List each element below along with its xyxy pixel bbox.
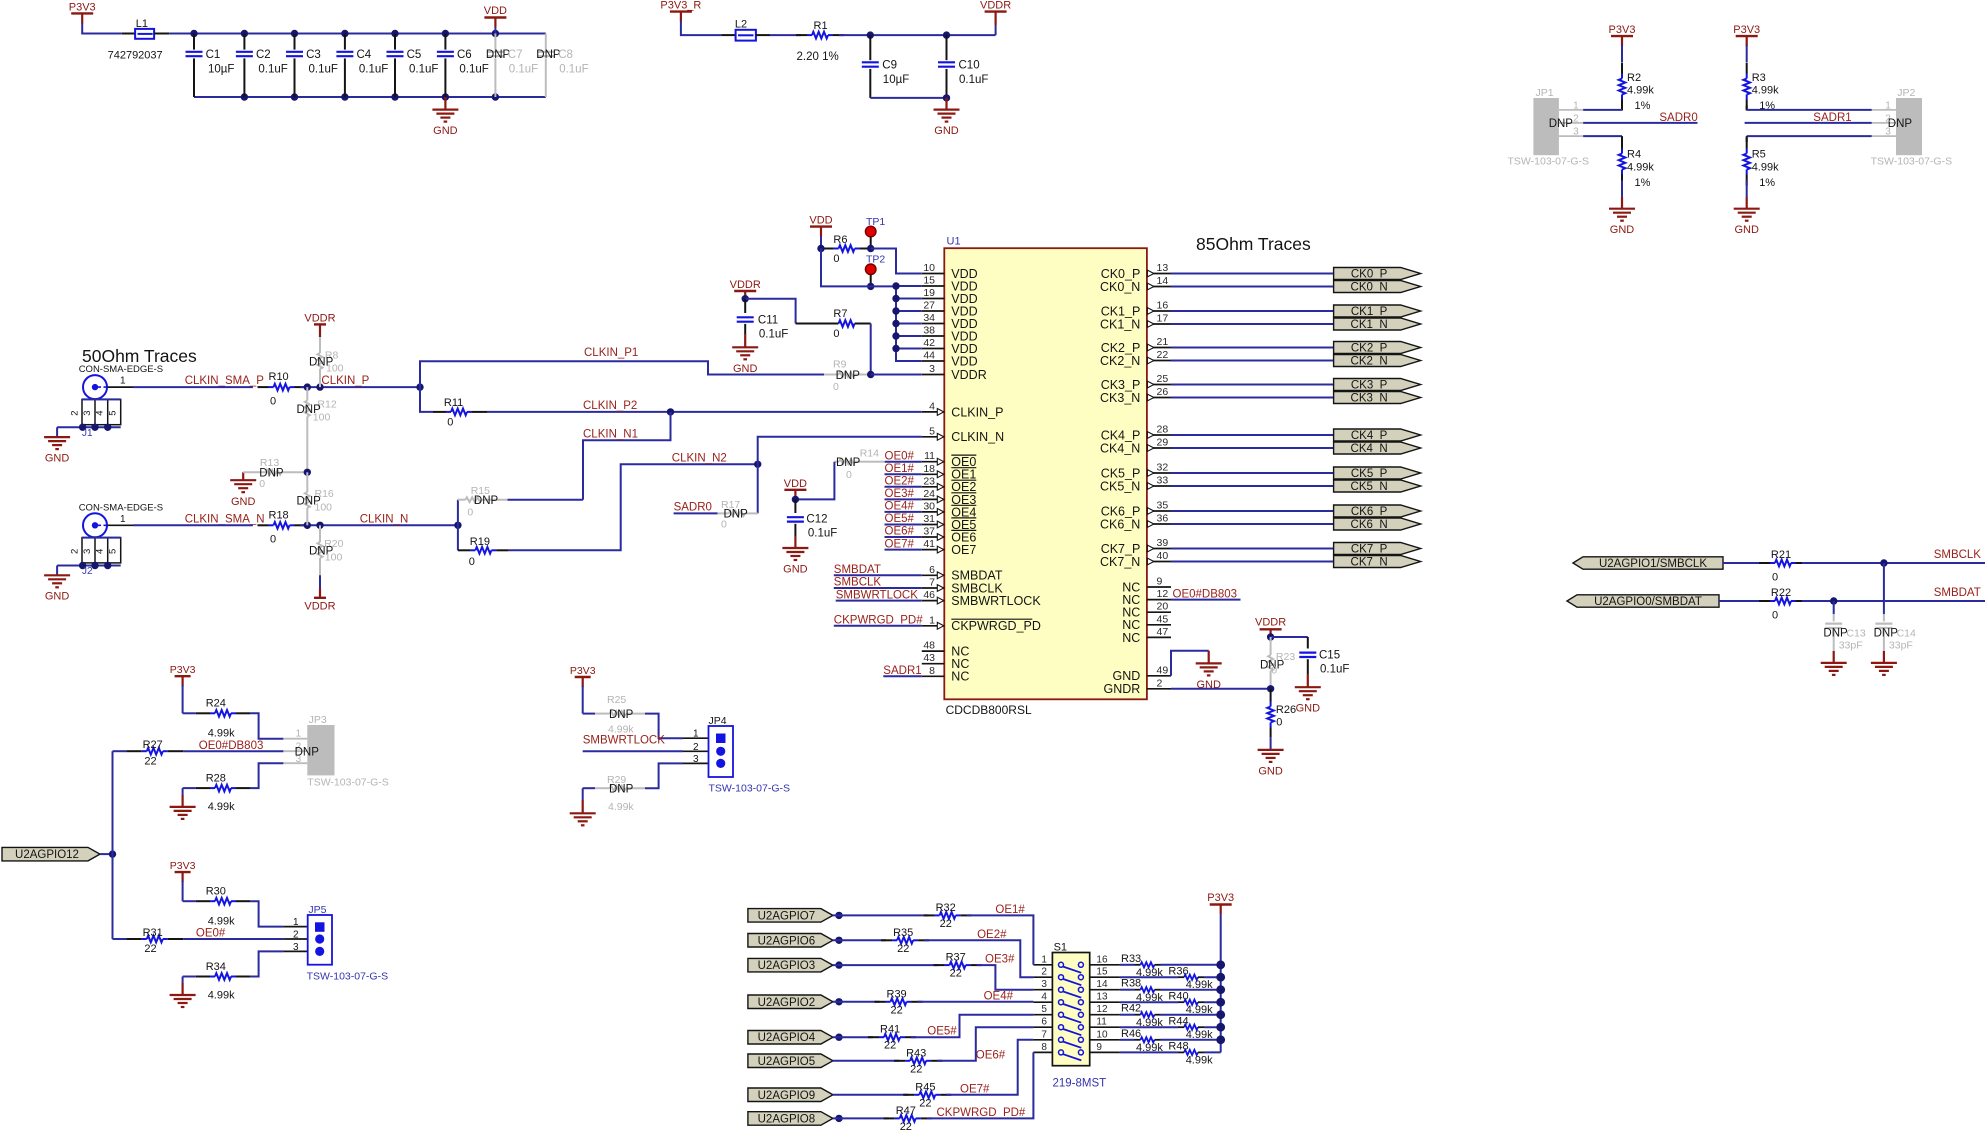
svg-text:CK1_P: CK1_P [1101, 304, 1141, 318]
svg-text:SMBWRTLOCK: SMBWRTLOCK [836, 589, 919, 601]
svg-text:SMBDAT: SMBDAT [1934, 587, 1981, 599]
svg-text:CK5_P: CK5_P [1101, 466, 1141, 480]
svg-text:19: 19 [923, 287, 935, 299]
svg-text:OE5#: OE5# [885, 513, 915, 525]
svg-text:C13: C13 [1846, 628, 1865, 640]
svg-text:2: 2 [1041, 967, 1047, 978]
svg-text:OE6#: OE6# [885, 526, 915, 538]
svg-text:CLKIN_N: CLKIN_N [360, 513, 409, 525]
svg-text:GND: GND [1734, 224, 1759, 236]
svg-text:0: 0 [833, 253, 839, 265]
svg-text:R6: R6 [833, 234, 847, 246]
svg-text:GND: GND [1610, 224, 1635, 236]
svg-text:1: 1 [120, 376, 126, 387]
svg-text:12: 12 [1157, 588, 1169, 600]
svg-text:U2AGPIO4: U2AGPIO4 [758, 1032, 816, 1044]
svg-text:0: 0 [270, 534, 276, 546]
svg-text:3: 3 [929, 363, 935, 375]
svg-text:18: 18 [923, 463, 935, 475]
svg-text:GND: GND [433, 125, 458, 137]
svg-text:7: 7 [929, 577, 935, 589]
svg-text:3: 3 [293, 942, 299, 953]
svg-text:DNP: DNP [1888, 118, 1913, 130]
svg-text:40: 40 [1157, 550, 1169, 562]
svg-text:25: 25 [1157, 373, 1169, 385]
svg-text:0.1uF: 0.1uF [509, 63, 538, 75]
svg-text:11: 11 [924, 450, 935, 462]
svg-text:15: 15 [923, 275, 935, 287]
svg-text:GND: GND [783, 564, 808, 576]
svg-text:GND: GND [1296, 703, 1321, 715]
svg-text:JP1: JP1 [1536, 87, 1554, 99]
svg-text:CK7_N: CK7_N [1351, 557, 1388, 569]
svg-text:C14: C14 [1897, 628, 1916, 640]
svg-text:R30: R30 [206, 886, 226, 898]
svg-text:CK2_N: CK2_N [1100, 354, 1140, 368]
svg-text:1%: 1% [1635, 177, 1651, 189]
svg-text:DNP: DNP [724, 508, 749, 520]
svg-text:R4: R4 [1627, 149, 1641, 161]
svg-text:23: 23 [923, 475, 935, 487]
svg-text:6: 6 [1041, 1017, 1047, 1028]
svg-text:OE4#: OE4# [885, 501, 915, 513]
svg-text:4.99k: 4.99k [1186, 1054, 1213, 1066]
svg-text:VDD: VDD [784, 478, 807, 490]
svg-text:CK7_N: CK7_N [1100, 555, 1140, 569]
svg-text:GND: GND [934, 125, 959, 137]
svg-text:27: 27 [923, 300, 935, 312]
svg-text:OE7#: OE7# [960, 1083, 990, 1095]
svg-text:TP2: TP2 [866, 254, 885, 266]
svg-text:38: 38 [923, 325, 935, 337]
svg-text:41: 41 [923, 538, 935, 550]
svg-text:NC: NC [951, 670, 969, 684]
svg-text:TSW-103-07-G-S: TSW-103-07-G-S [1508, 156, 1590, 168]
svg-text:OE1#: OE1# [885, 463, 915, 475]
svg-text:CLKIN_N1: CLKIN_N1 [583, 428, 638, 440]
svg-text:DNP: DNP [295, 746, 320, 758]
svg-text:1: 1 [296, 729, 302, 740]
svg-text:30: 30 [923, 500, 935, 512]
svg-text:U2AGPIO8: U2AGPIO8 [758, 1113, 816, 1125]
svg-text:P3V3_R: P3V3_R [660, 0, 701, 12]
svg-text:4.99k: 4.99k [208, 728, 235, 740]
svg-text:4: 4 [929, 400, 935, 412]
svg-text:2: 2 [1157, 677, 1163, 689]
svg-text:R38: R38 [1121, 978, 1141, 990]
svg-text:R24: R24 [206, 698, 226, 710]
svg-text:OE2#: OE2# [977, 929, 1007, 941]
svg-text:0: 0 [833, 328, 839, 340]
svg-text:U2AGPIO3: U2AGPIO3 [758, 960, 816, 972]
svg-text:42: 42 [923, 337, 935, 349]
svg-text:P3V3: P3V3 [1207, 892, 1234, 904]
svg-text:C7: C7 [508, 49, 523, 61]
svg-text:R32: R32 [936, 902, 956, 914]
svg-text:CK1_P: CK1_P [1351, 306, 1388, 318]
svg-text:5: 5 [929, 425, 935, 437]
svg-text:VDD: VDD [484, 5, 507, 17]
svg-text:21: 21 [1157, 336, 1169, 348]
svg-text:R43: R43 [906, 1047, 926, 1059]
svg-text:10: 10 [1096, 1029, 1108, 1040]
svg-text:R35: R35 [893, 927, 913, 939]
svg-text:9: 9 [1096, 1042, 1102, 1053]
svg-text:0: 0 [259, 478, 265, 490]
svg-text:0: 0 [721, 518, 727, 530]
svg-text:22: 22 [897, 943, 909, 955]
svg-text:R3: R3 [1752, 72, 1766, 84]
svg-text:35: 35 [1157, 500, 1169, 512]
svg-text:R11: R11 [444, 397, 463, 409]
svg-text:OE3#: OE3# [985, 954, 1015, 966]
svg-text:GND: GND [231, 496, 256, 508]
svg-text:33pF: 33pF [1889, 640, 1913, 652]
svg-text:0.1uF: 0.1uF [808, 528, 837, 540]
svg-text:13: 13 [1157, 262, 1169, 274]
svg-text:U2AGPIO9: U2AGPIO9 [758, 1090, 816, 1102]
svg-text:C15: C15 [1319, 650, 1340, 662]
svg-text:JP2: JP2 [1897, 87, 1915, 99]
svg-text:CK2_P: CK2_P [1101, 341, 1141, 355]
svg-text:R18: R18 [269, 509, 289, 521]
svg-text:2: 2 [70, 549, 81, 554]
svg-text:VDDR: VDDR [951, 368, 986, 382]
svg-text:0.1uF: 0.1uF [359, 63, 388, 75]
svg-text:37: 37 [923, 526, 935, 538]
svg-text:SMBCLK: SMBCLK [834, 577, 882, 589]
svg-text:OE0#: OE0# [196, 928, 226, 940]
svg-text:22: 22 [884, 1040, 896, 1052]
svg-text:0.1uF: 0.1uF [258, 63, 287, 75]
svg-text:GND: GND [1258, 765, 1283, 777]
svg-text:1: 1 [1041, 954, 1047, 965]
svg-text:VDDR: VDDR [730, 279, 761, 291]
svg-text:CK5_N: CK5_N [1351, 481, 1388, 493]
svg-text:R26: R26 [1276, 704, 1296, 716]
svg-text:0: 0 [270, 395, 276, 407]
svg-text:CKPWRGD_PD#: CKPWRGD_PD# [834, 614, 923, 626]
svg-text:U2AGPIO0/SMBDAT: U2AGPIO0/SMBDAT [1594, 596, 1702, 608]
svg-text:CK6_N: CK6_N [1351, 519, 1388, 531]
svg-text:10: 10 [923, 262, 935, 274]
svg-text:15: 15 [1096, 967, 1108, 978]
svg-text:R36: R36 [1168, 966, 1188, 978]
svg-text:22: 22 [1157, 349, 1169, 361]
svg-text:4.99k: 4.99k [1752, 84, 1779, 96]
svg-text:1: 1 [293, 917, 299, 928]
svg-text:32: 32 [1157, 462, 1169, 474]
svg-text:6: 6 [929, 564, 935, 576]
svg-text:4.99k: 4.99k [1627, 162, 1654, 174]
svg-text:CK4_P: CK4_P [1101, 428, 1141, 442]
svg-text:OE0#DB803: OE0#DB803 [1173, 588, 1238, 600]
svg-text:R27: R27 [143, 739, 163, 751]
svg-text:R5: R5 [1752, 149, 1766, 161]
svg-text:39: 39 [1157, 537, 1169, 549]
svg-text:12: 12 [1096, 1004, 1108, 1015]
svg-text:CLKIN_N2: CLKIN_N2 [672, 452, 727, 464]
svg-text:C10: C10 [959, 60, 980, 72]
svg-text:TSW-103-07-G-S: TSW-103-07-G-S [307, 971, 389, 983]
svg-text:4.99k: 4.99k [208, 801, 235, 813]
svg-text:C4: C4 [357, 49, 372, 61]
svg-text:0.1uF: 0.1uF [409, 63, 438, 75]
svg-text:JP5: JP5 [308, 904, 326, 916]
svg-text:P3V3: P3V3 [1733, 24, 1760, 36]
svg-text:100: 100 [326, 363, 344, 375]
svg-text:CK3_P: CK3_P [1351, 380, 1388, 392]
svg-text:49: 49 [1157, 664, 1169, 676]
svg-text:U1: U1 [947, 236, 961, 248]
svg-text:CK0_P: CK0_P [1351, 269, 1388, 281]
svg-text:R25: R25 [607, 694, 626, 706]
svg-text:1: 1 [929, 614, 935, 626]
svg-text:17: 17 [1157, 313, 1169, 325]
svg-text:0.1uF: 0.1uF [559, 63, 588, 75]
svg-text:CK3_P: CK3_P [1101, 378, 1141, 392]
svg-text:100: 100 [325, 551, 343, 563]
svg-text:CK2_P: CK2_P [1351, 343, 1388, 355]
svg-text:0: 0 [447, 417, 453, 429]
svg-text:0: 0 [1772, 610, 1778, 622]
svg-text:VDDR: VDDR [980, 0, 1011, 12]
svg-text:0: 0 [1276, 717, 1282, 729]
svg-text:U2AGPIO7: U2AGPIO7 [758, 910, 816, 922]
svg-text:GND: GND [45, 452, 70, 464]
svg-text:P3V3: P3V3 [570, 665, 596, 677]
svg-text:R47: R47 [896, 1105, 916, 1117]
svg-text:24: 24 [923, 488, 935, 500]
svg-text:CK2_N: CK2_N [1351, 356, 1388, 368]
svg-text:DNP: DNP [1874, 628, 1899, 640]
svg-text:C12: C12 [806, 514, 827, 526]
svg-text:DNP: DNP [836, 457, 861, 469]
svg-text:U2AGPIO5: U2AGPIO5 [758, 1056, 816, 1068]
svg-text:R39: R39 [887, 988, 907, 1000]
svg-text:3: 3 [693, 754, 699, 765]
svg-text:R14: R14 [860, 448, 879, 460]
svg-text:9: 9 [1157, 576, 1163, 588]
svg-text:SMBWRTLOCK: SMBWRTLOCK [951, 594, 1041, 608]
svg-text:OE3#: OE3# [885, 488, 915, 500]
svg-text:22: 22 [919, 1097, 931, 1109]
svg-text:CK5_N: CK5_N [1100, 479, 1140, 493]
svg-text:CLKIN_P: CLKIN_P [321, 375, 369, 387]
svg-text:4.99k: 4.99k [1627, 84, 1654, 96]
svg-text:C3: C3 [306, 49, 321, 61]
svg-text:1: 1 [120, 514, 126, 525]
svg-text:CK1_N: CK1_N [1351, 319, 1388, 331]
svg-text:100: 100 [315, 501, 333, 513]
svg-text:22: 22 [910, 1063, 922, 1075]
svg-text:R40: R40 [1168, 991, 1188, 1003]
svg-text:CK3_N: CK3_N [1351, 393, 1388, 405]
svg-text:16: 16 [1096, 954, 1108, 965]
svg-text:CK7_P: CK7_P [1351, 544, 1388, 556]
svg-text:R33: R33 [1121, 953, 1141, 965]
svg-text:22: 22 [144, 943, 156, 955]
svg-text:DNP: DNP [836, 370, 861, 382]
svg-text:TP1: TP1 [866, 216, 885, 228]
svg-text:22: 22 [900, 1121, 912, 1130]
svg-text:4: 4 [95, 410, 106, 415]
svg-text:44: 44 [923, 350, 935, 362]
svg-text:OE2#: OE2# [885, 476, 915, 488]
svg-text:28: 28 [1157, 424, 1169, 436]
svg-text:7: 7 [1041, 1029, 1047, 1040]
svg-text:CLKIN_P2: CLKIN_P2 [583, 400, 637, 412]
svg-text:R21: R21 [1771, 549, 1791, 561]
svg-text:C2: C2 [256, 49, 271, 61]
svg-text:10µF: 10µF [883, 74, 909, 86]
svg-text:U2AGPIO2: U2AGPIO2 [758, 997, 816, 1009]
svg-text:8: 8 [1041, 1042, 1047, 1053]
svg-text:3: 3 [82, 410, 93, 415]
svg-text:16: 16 [1157, 300, 1169, 312]
svg-text:J1: J1 [82, 428, 93, 439]
svg-text:22: 22 [144, 755, 156, 767]
svg-text:CKPWRGD_PD#: CKPWRGD_PD# [937, 1107, 1026, 1119]
svg-text:1%: 1% [1635, 100, 1651, 112]
svg-text:26: 26 [1157, 386, 1169, 398]
svg-text:47: 47 [1157, 626, 1169, 638]
svg-text:0.1uF: 0.1uF [959, 74, 988, 86]
svg-text:5: 5 [1041, 1004, 1047, 1015]
svg-text:SADR0: SADR0 [674, 501, 712, 513]
svg-text:OE0#DB803: OE0#DB803 [199, 740, 264, 752]
svg-text:OE0#: OE0# [885, 450, 915, 462]
svg-text:VDD: VDD [951, 354, 977, 368]
svg-text:219-8MST: 219-8MST [1053, 1078, 1107, 1090]
svg-text:C8: C8 [558, 49, 573, 61]
svg-text:CDCDB800RSL: CDCDB800RSL [946, 703, 1032, 717]
svg-text:5: 5 [108, 410, 119, 415]
svg-text:14: 14 [1096, 979, 1108, 990]
svg-text:R42: R42 [1121, 1003, 1141, 1015]
svg-text:CK0_N: CK0_N [1100, 280, 1140, 294]
svg-text:P3V3: P3V3 [170, 860, 196, 872]
svg-text:2: 2 [1573, 114, 1579, 125]
svg-text:TSW-103-07-G-S: TSW-103-07-G-S [709, 783, 791, 795]
svg-text:CLKIN_P1: CLKIN_P1 [584, 347, 638, 359]
svg-text:TSW-103-07-G-S: TSW-103-07-G-S [1871, 156, 1953, 168]
svg-text:34: 34 [923, 312, 935, 324]
svg-text:CK3_N: CK3_N [1100, 391, 1140, 405]
svg-text:11: 11 [1096, 1017, 1107, 1028]
svg-text:100: 100 [313, 412, 331, 424]
svg-text:OE4#: OE4# [984, 990, 1014, 1002]
svg-text:SMBDAT: SMBDAT [834, 564, 881, 576]
svg-text:0: 0 [469, 556, 475, 568]
svg-text:JP3: JP3 [309, 714, 327, 726]
svg-text:1%: 1% [1759, 177, 1775, 189]
svg-text:R45: R45 [915, 1081, 935, 1093]
svg-text:2: 2 [693, 742, 699, 753]
svg-text:CON-SMA-EDGE-S: CON-SMA-EDGE-S [79, 502, 163, 513]
svg-text:33: 33 [1157, 475, 1169, 487]
svg-text:P3V3: P3V3 [1609, 24, 1636, 36]
svg-text:2.20 1%: 2.20 1% [797, 51, 839, 63]
svg-text:R48: R48 [1168, 1041, 1188, 1053]
svg-text:CK0_N: CK0_N [1351, 282, 1388, 294]
svg-text:4.99k: 4.99k [608, 801, 634, 813]
svg-text:2: 2 [1885, 114, 1891, 125]
svg-text:4.99k: 4.99k [208, 989, 235, 1001]
svg-text:CKPWRGD_PD: CKPWRGD_PD [951, 619, 1041, 633]
svg-text:R19: R19 [470, 536, 490, 548]
svg-text:DNP: DNP [474, 495, 499, 507]
svg-text:DNP: DNP [609, 783, 634, 795]
svg-text:4.99k: 4.99k [208, 916, 235, 928]
svg-text:0.1uF: 0.1uF [459, 63, 488, 75]
svg-text:22: 22 [950, 968, 962, 980]
svg-text:SMBCLK: SMBCLK [1934, 549, 1982, 561]
svg-text:C1: C1 [206, 49, 221, 61]
svg-text:20: 20 [1157, 601, 1169, 613]
svg-text:CK6_P: CK6_P [1351, 506, 1388, 518]
svg-text:CLKIN_SMA_P: CLKIN_SMA_P [185, 375, 265, 387]
svg-text:1: 1 [1573, 101, 1579, 112]
svg-text:CLKIN_P: CLKIN_P [951, 405, 1003, 419]
svg-text:R34: R34 [206, 961, 226, 973]
svg-text:CLKIN_N: CLKIN_N [951, 430, 1004, 444]
svg-text:R31: R31 [143, 927, 163, 939]
svg-text:1: 1 [1885, 101, 1891, 112]
svg-text:VDDR: VDDR [304, 313, 335, 325]
svg-text:0: 0 [467, 506, 473, 518]
svg-text:10µF: 10µF [208, 63, 234, 75]
svg-text:3: 3 [1885, 127, 1891, 138]
svg-text:OE5#: OE5# [927, 1026, 957, 1038]
svg-text:46: 46 [923, 589, 935, 601]
svg-text:U2AGPIO1/SMBCLK: U2AGPIO1/SMBCLK [1599, 558, 1707, 570]
svg-text:CK7_P: CK7_P [1101, 542, 1141, 556]
svg-text:13: 13 [1096, 992, 1108, 1003]
svg-text:GND: GND [733, 363, 758, 375]
svg-text:C6: C6 [457, 49, 472, 61]
svg-text:CK5_P: CK5_P [1351, 468, 1388, 480]
svg-text:CK1_N: CK1_N [1100, 317, 1140, 331]
svg-text:CK4_P: CK4_P [1351, 430, 1388, 442]
svg-text:14: 14 [1157, 275, 1169, 287]
svg-text:CON-SMA-EDGE-S: CON-SMA-EDGE-S [79, 364, 163, 375]
svg-text:45: 45 [1157, 613, 1169, 625]
svg-text:JP4: JP4 [709, 715, 727, 727]
svg-text:DNP: DNP [609, 709, 634, 721]
svg-text:3: 3 [1573, 127, 1579, 138]
svg-text:8: 8 [929, 665, 935, 677]
svg-text:0: 0 [846, 469, 852, 481]
svg-text:3: 3 [1041, 979, 1047, 990]
svg-text:48: 48 [923, 640, 935, 652]
svg-text:29: 29 [1157, 437, 1169, 449]
svg-text:50Ohm Traces: 50Ohm Traces [82, 346, 197, 366]
svg-text:P3V3: P3V3 [170, 664, 196, 676]
svg-text:0.1uF: 0.1uF [309, 63, 338, 75]
svg-text:CK6_N: CK6_N [1100, 517, 1140, 531]
svg-text:C9: C9 [882, 60, 897, 72]
svg-text:NC: NC [1122, 631, 1140, 645]
svg-text:33pF: 33pF [1839, 640, 1863, 652]
svg-text:R22: R22 [1771, 587, 1791, 599]
svg-text:VDD: VDD [809, 215, 832, 227]
svg-text:OE7: OE7 [951, 543, 976, 557]
svg-text:85Ohm Traces: 85Ohm Traces [1196, 234, 1311, 254]
svg-text:S1: S1 [1054, 942, 1067, 954]
svg-text:DNP: DNP [1823, 628, 1848, 640]
svg-text:J2: J2 [82, 566, 93, 577]
